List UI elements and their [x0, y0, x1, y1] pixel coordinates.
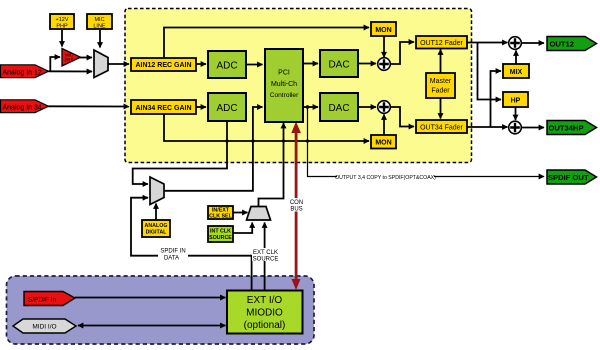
svg-text:ADC: ADC: [216, 60, 237, 71]
svg-text:Analog In 34: Analog In 34: [3, 104, 42, 111]
svg-text:SPDIF IN: SPDIF IN: [160, 249, 185, 255]
svg-text:OUT34 Fader: OUT34 Fader: [420, 125, 463, 132]
svg-text:MON: MON: [375, 140, 391, 147]
svg-text:DAC: DAC: [328, 103, 349, 114]
svg-text:EXT CLK: EXT CLK: [253, 250, 278, 256]
svg-text:SOURCE: SOURCE: [253, 256, 279, 262]
svg-text:OUT12: OUT12: [550, 39, 574, 48]
svg-text:PRE: PRE: [64, 58, 73, 63]
svg-text:MIODIO: MIODIO: [246, 308, 283, 319]
svg-text:DAC: DAC: [328, 59, 349, 70]
svg-text:ADC: ADC: [216, 103, 237, 114]
svg-text:Multi-Ch: Multi-Ch: [271, 81, 297, 88]
svg-text:PCI: PCI: [278, 70, 290, 77]
svg-text:AIN12 REC GAIN: AIN12 REC GAIN: [135, 62, 191, 69]
svg-text:CLK SEL: CLK SEL: [209, 214, 232, 220]
svg-text:Analog In 12: Analog In 12: [3, 69, 42, 76]
svg-text:MIDI I/O: MIDI I/O: [32, 324, 56, 331]
svg-text:AIN34 REC GAIN: AIN34 REC GAIN: [135, 105, 191, 112]
svg-text:SOURCE: SOURCE: [209, 235, 232, 241]
svg-text:MIC: MIC: [94, 17, 104, 23]
svg-text:CON: CON: [290, 200, 303, 206]
svg-text:Master: Master: [430, 78, 452, 85]
svg-text:(optional): (optional): [244, 320, 286, 331]
svg-text:MIX: MIX: [510, 69, 523, 76]
svg-text:SPDIF OUT: SPDIF OUT: [548, 173, 589, 182]
svg-text:LINE: LINE: [93, 24, 106, 30]
svg-text:S/PDIF In: S/PDIF In: [28, 296, 57, 303]
svg-text:INT CLK: INT CLK: [210, 229, 231, 235]
svg-text:Controller: Controller: [270, 92, 299, 99]
svg-text:DATA: DATA: [164, 256, 179, 262]
svg-text:PHP: PHP: [56, 24, 68, 30]
svg-text:BUS: BUS: [290, 206, 302, 212]
svg-text:OUT34HP: OUT34HP: [549, 123, 584, 132]
svg-text:+12V: +12V: [56, 17, 69, 23]
svg-text:OUT12 Fader: OUT12 Fader: [420, 40, 463, 47]
svg-text:HP: HP: [511, 97, 521, 104]
svg-text:Fader: Fader: [431, 88, 450, 95]
svg-text:OUTPUT 3,4 COPY to SPDIF(OPT&C: OUTPUT 3,4 COPY to SPDIF(OPT&COAX): [335, 175, 436, 181]
svg-text:EXT I/O: EXT I/O: [247, 295, 283, 306]
svg-text:ANALOG: ANALOG: [145, 223, 168, 229]
svg-text:DIGITAL: DIGITAL: [146, 230, 168, 236]
svg-text:MON: MON: [375, 27, 391, 34]
